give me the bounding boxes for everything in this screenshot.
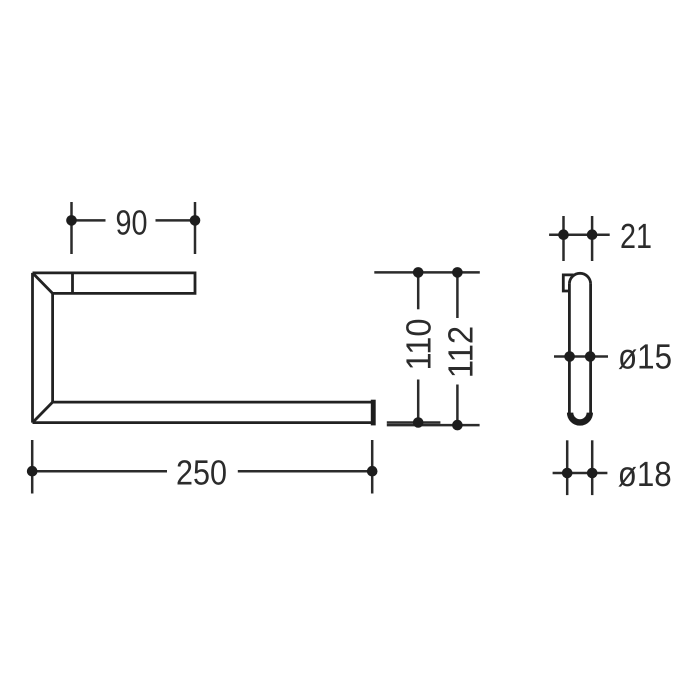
dimension 110: dimension line xyxy=(417,272,420,422)
dimension 21: dimension line xyxy=(549,233,610,236)
dimension 112: value label xyxy=(442,326,481,379)
svg-text:110: 110 xyxy=(399,319,438,371)
svg-text:21: 21 xyxy=(620,217,652,256)
dimension 250: extension lines xyxy=(32,440,372,494)
side view: wall mount tab xyxy=(563,275,573,291)
dimension 250: terminal dots xyxy=(27,466,378,477)
dimension 250: value label xyxy=(176,454,227,493)
front view: top bar joint tick xyxy=(71,273,74,294)
dimension 110: terminal dots xyxy=(413,267,424,428)
dimension ø15: value label xyxy=(618,338,672,377)
svg-text:ø15: ø15 xyxy=(618,338,672,377)
dimension ø18: dimension line xyxy=(553,472,608,475)
front view: bottom bar top edge xyxy=(53,401,371,404)
dimension 110/112: top reference line xyxy=(374,271,480,274)
side view: bottom end thick arc xyxy=(570,413,590,423)
svg-text:112: 112 xyxy=(442,326,481,379)
front view: top-left bevel diagonal xyxy=(33,273,53,294)
side view: tube left edge xyxy=(568,284,571,413)
front view: bottom bar bottom edge xyxy=(33,421,372,424)
front view: left leg outer edge xyxy=(31,273,34,423)
dimension 90: value label xyxy=(116,203,148,242)
dimension 90: dimension line xyxy=(72,219,196,222)
dimension ø18: value label xyxy=(618,455,672,494)
dimension 90: terminal dots xyxy=(66,215,200,226)
dimension ø15: dimension line xyxy=(554,355,608,358)
side view: tube right edge xyxy=(589,284,592,413)
dimension ø18: terminal dots xyxy=(562,468,598,479)
svg-text:90: 90 xyxy=(116,203,148,242)
dimension 112: bottom reference line xyxy=(387,424,480,427)
dimension 21: value label xyxy=(620,217,652,256)
dimension 21: extension lines xyxy=(564,216,593,261)
dimension 90: extension lines xyxy=(72,202,196,254)
front view: left leg inner edge xyxy=(51,293,54,402)
dimension 250: dimension line xyxy=(32,470,372,473)
svg-text:ø18: ø18 xyxy=(618,455,672,494)
dimension 110: value label xyxy=(399,319,438,371)
dimension 112: terminal dots xyxy=(452,267,463,430)
front view: bottom bar end cap xyxy=(371,400,376,426)
dimension ø18: extension lines xyxy=(567,440,592,495)
dimension ø15: terminal dots xyxy=(564,351,595,362)
side view: tube top arc xyxy=(569,273,590,284)
front view: top bar outline xyxy=(33,273,196,294)
svg-text:250: 250 xyxy=(176,454,227,493)
dimension 112: dimension line xyxy=(456,272,459,425)
dimension 110: bottom reference line xyxy=(387,421,441,424)
front view: bottom-left bevel diagonal xyxy=(33,402,53,423)
dimension 21: terminal dots xyxy=(558,229,597,240)
